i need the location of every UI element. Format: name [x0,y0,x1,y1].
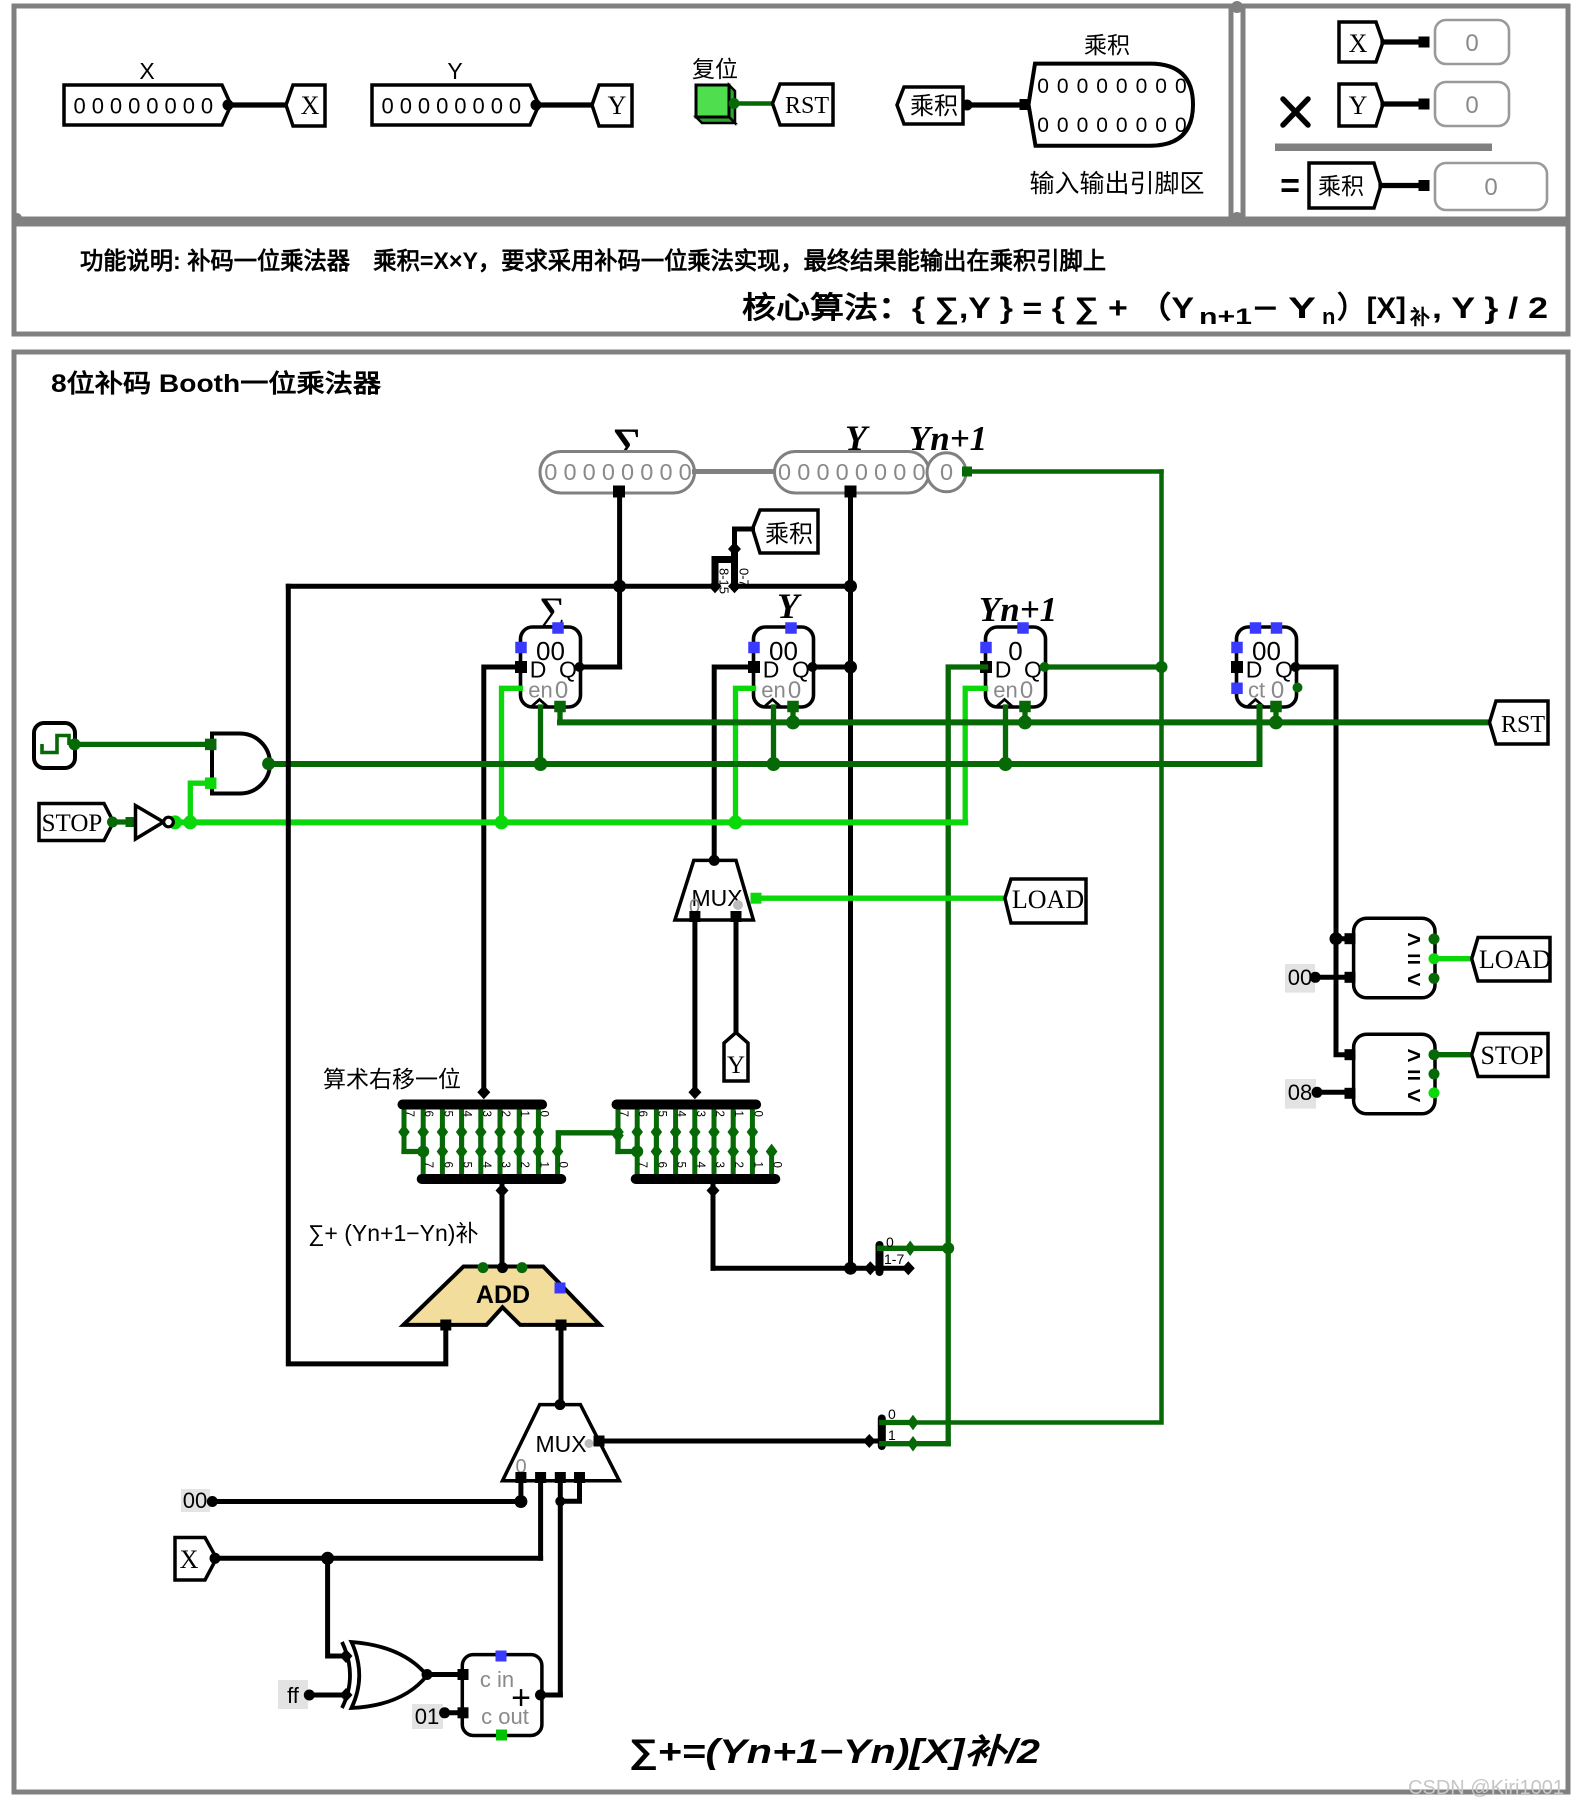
junction clock at Yn+1 register [999,757,1013,771]
wire Y bus to Yn splitter [713,1266,870,1271]
svg-text:0: 0 [797,459,810,485]
svg-text:1: 1 [888,1427,896,1443]
tunnel RST (top row) [773,84,834,125]
svg-text:∑+ (Yn+1−Yn)补: ∑+ (Yn+1−Yn)补 [308,1220,478,1246]
probe X value box [1435,20,1509,64]
svg-text:0: 0 [1037,75,1049,98]
svg-text:7: 7 [636,1162,648,1168]
wire tunnel 乘积 to probe [1381,183,1424,188]
svg-text:2: 2 [499,1111,511,1117]
svg-text:4: 4 [480,1162,492,1169]
wire button to tunnel RST [734,101,772,106]
wire 00 to MUX2 in0 [212,1499,521,1504]
wire Yn+1 en (light green) [965,688,985,822]
tunnel LOAD (right) [1472,938,1550,982]
wire constant 08 to comparator2 [1317,1090,1350,1095]
svg-text:0: 0 [888,1406,896,1422]
splitter SIGMA-shift bottom bar [422,1174,562,1184]
svg-text:5: 5 [655,1111,667,1117]
junction enable at AND branch [183,815,197,829]
Y-shift bit0 dangling arrow [766,1144,778,1160]
splitter product 16-bit (8-15 / 0-7) [728,542,741,556]
svg-text:n+1: n+1 [1199,304,1252,329]
svg-text:0: 0 [583,459,596,485]
panel handle dots [1231,1,1243,13]
node: probe ∑ stub [613,486,625,498]
node: ∑ register Q [575,662,585,672]
svg-text:5: 5 [441,1111,453,1117]
wire Y probe down (Y bus) [848,490,853,1269]
wire tunnel Y to probe [1383,101,1424,106]
wire MUX1 in0 down to Y shifter output [692,920,697,1092]
svg-text:0: 0 [1096,114,1108,137]
wire constant 00 to comparator1 [1315,975,1350,980]
panel border: description text frame [14,224,1568,334]
svg-text:0: 0 [473,94,485,119]
junction RST at counter [1269,715,1283,729]
tunnel 乘积 (circuit) [753,510,819,553]
svg-text:0: 0 [563,459,576,485]
svg-text:00: 00 [183,1488,207,1513]
svg-text:0: 0 [640,459,653,485]
wire ∑ en (light green) [502,688,521,822]
svg-text:0: 0 [1077,114,1089,137]
svg-text:0: 0 [1116,75,1128,98]
MUX2 select square [594,1436,605,1447]
svg-text:LOAD: LOAD [1479,945,1551,974]
svg-text:6: 6 [636,1111,648,1117]
wire STOP to inverter [113,819,137,824]
wire Yn+1 clock stub [1003,707,1008,764]
svg-text:0: 0 [201,94,213,119]
svg-text:RST: RST [785,93,829,119]
svg-text:0: 0 [1271,677,1284,704]
node: STOP pin [107,817,118,828]
wire ∑ probe down [617,490,622,668]
wire MUX2 in2 down to bottom adder output [558,1481,563,1695]
bottom adder (+, c in / c out) [462,1655,542,1736]
svg-text:0: 0 [893,459,906,485]
splitter MUX2-select (0 / 1) [863,1434,876,1448]
svg-text:MUX: MUX [535,1431,586,1457]
svg-text:STOP: STOP [1480,1041,1543,1070]
svg-text:核心算法：{ ∑,Y } = { ∑ + （Y: 核心算法：{ ∑,Y } = { ∑ + （Y [742,291,1194,325]
cross wire ∑ LSB to Y-shift bit7 [558,1133,618,1152]
push button 复位 [729,85,735,123]
svg-text:6: 6 [655,1162,667,1168]
svg-text:RST: RST [1501,712,1545,738]
clock input component [34,723,75,768]
input pin Y (8-bit, 00000000) [372,85,539,125]
junction 00-line at MUX2 in0 [514,1495,527,1508]
probe 乘积 value box [1435,163,1547,210]
node: AND output [262,757,275,770]
node: probe 乘积 input [1419,180,1430,191]
register Y [754,627,814,707]
svg-text:+: + [511,1679,531,1717]
svg-text:0: 0 [1155,75,1167,98]
svg-text:4: 4 [461,1111,473,1118]
svg-text:3: 3 [694,1111,706,1117]
wire MUX2 output up to ADD input B [559,1327,564,1405]
svg-text:0: 0 [557,1162,569,1168]
register SIGMA [521,627,581,707]
svg-text:0: 0 [400,94,412,119]
wire Y reset stub [790,707,795,722]
junction comparator upper input [1330,932,1343,945]
adder ADD (8-bit) [403,1267,599,1325]
wire tunnel X to probe [1383,39,1424,44]
svg-text:<: < [1407,966,1421,993]
svg-text:乘积: 乘积 [1084,32,1130,58]
wire ∑ reset stub [557,707,562,722]
wire MUX1 in1 down to Y pin [734,920,739,1035]
wire enable bus (light green, inverted STOP) [172,819,965,825]
svg-text:STOP: STOP [42,810,103,837]
splitter Y-shift endpoint arrows [612,1124,624,1140]
svg-text:0: 0 [778,459,791,485]
svg-text:0: 0 [1096,75,1108,98]
text 核心算法 formula line [742,291,1548,329]
tunnel STOP (right) [1472,1034,1548,1077]
constant 01 (adder input) [412,1704,443,1729]
junction enable at Y register [729,815,743,829]
output pin 乘积 (16-bit display) [1029,64,1194,146]
svg-text:0: 0 [886,1234,894,1250]
splitter SIGMA-shift fan wires [402,1105,407,1152]
svg-text:0: 0 [1057,75,1069,98]
svg-text:CSDN @Kiri1001: CSDN @Kiri1001 [1408,1777,1564,1799]
tunnel 乘积 (result panel) [1309,163,1381,208]
node: inverter output [168,815,182,829]
wire LOAD to MUX1 select [759,896,1005,901]
tunnel LOAD (at MUX1) [1005,879,1086,923]
wire 01 to adder [445,1710,463,1715]
wire X to MUX2 in1 [215,1556,541,1561]
ADD input squares [440,1320,451,1331]
tunnel Y (load value, pointing up) [724,1033,748,1082]
svg-text:输入输出引脚区: 输入输出引脚区 [1029,170,1204,198]
svg-text:, Y } / 2: , Y } / 2 [1432,292,1548,325]
junction enable at ∑ register [495,815,509,829]
svg-text:0: 0 [940,459,953,485]
node: clock output [69,738,81,750]
fraction bar [1275,144,1492,152]
svg-text:6: 6 [422,1111,434,1117]
svg-text:1: 1 [518,1111,530,1117]
svg-text:6: 6 [441,1162,453,1168]
tunnel Y (top row) [592,85,632,126]
tunnel X (top row) [286,85,325,126]
wire ∑ clock stub [538,707,543,764]
svg-text:2: 2 [518,1162,530,1168]
svg-text:2: 2 [732,1162,744,1168]
input pin X (8-bit, 00000000) [64,85,231,125]
node: probe Y stub [845,486,857,498]
junction RST at Y register [786,715,800,729]
splitter SIGMA-shift top bar [403,1100,543,1110]
svg-text:0: 0 [836,459,849,485]
svg-text:01: 01 [415,1704,439,1729]
junction RST at Yn+1 register [1018,715,1032,729]
wire MUX2 in1 down to X line [538,1481,543,1559]
wire comparator1 = to LOAD tunnel [1434,956,1472,961]
wire Y Q to Y bus [813,665,851,670]
svg-text:1: 1 [751,1162,763,1168]
svg-text:Y: Y [1349,91,1368,120]
wire counter Q down to comparators [1296,667,1351,1055]
svg-text:0: 0 [146,94,158,119]
svg-text:0: 0 [855,459,868,485]
node: MUX1 output [709,855,720,866]
MUX2 input stubs [515,1472,526,1483]
svg-text:0: 0 [1136,75,1148,98]
XOR gate [342,1642,350,1708]
svg-text:0: 0 [74,94,86,119]
probe Yn+1 (1-bit circle) [927,453,966,492]
MUX1 select square [751,893,762,904]
node comparator1 > output [1429,934,1440,945]
node: Y register Q [808,662,818,672]
splitter SIGMA-shift bit7 jog [404,1149,423,1154]
svg-text:0: 0 [537,1111,549,1117]
svg-text:0: 0 [509,94,521,119]
junction Yn+1 long vertical [1156,661,1168,673]
svg-text:X: X [1349,29,1368,58]
gray wire probe ∑ to probe Y [695,469,775,474]
svg-text:1: 1 [732,1111,744,1117]
svg-text:4: 4 [675,1111,687,1118]
svg-text:1: 1 [537,1162,549,1168]
svg-text:7: 7 [617,1111,629,1117]
wire Yn+1 reset stub [1022,707,1027,722]
svg-text:乘积: 乘积 [1318,173,1364,199]
node: counter carry out [1293,683,1303,693]
svg-text:0: 0 [92,94,104,119]
node: pin Y output [531,100,542,111]
svg-text:08: 08 [1288,1080,1312,1105]
svg-text:0: 0 [1465,30,1478,57]
wire counter reset stub [1273,707,1278,722]
wire: long Yn+1 vertical to lower bit splitter [913,472,1162,1423]
svg-text:0: 0 [1057,114,1069,137]
splitter SIGMA input stub [477,1085,490,1099]
wire MUX2 in0 stub [518,1481,523,1502]
wire MUX2 select to splitter [602,1439,869,1444]
wire Y bus horizontal (to 0-7) [735,584,851,589]
wire adder output to MUX2 in2 [541,1693,561,1698]
wire MUX2 in3 join in2 [560,1481,579,1502]
svg-text:7: 7 [403,1111,415,1117]
svg-text:Y: Y [608,91,627,120]
splitter Y-shift bottom bar [636,1174,776,1184]
wire Yn bit to Yn+1 register D [948,667,985,1444]
svg-text:3: 3 [499,1162,511,1168]
svg-text:0: 0 [1116,114,1128,137]
wire Yn+1 probe to long vertical [967,469,1162,474]
svg-text:乘积: 乘积 [910,93,958,120]
constant 00 (MUX2 in0) [181,1489,210,1512]
svg-text:3: 3 [480,1111,492,1117]
node: Yn+1 register Q [1040,662,1050,672]
wire junction to comparator1 input [1336,936,1350,941]
node comparator1 = output [1429,953,1440,964]
wire Yn+1 Q to long vertical [1045,664,1162,669]
svg-text:3: 3 [713,1162,725,1168]
svg-text:Y: Y [447,58,462,84]
wire ∑ bus horizontal (to 8-15) [288,584,715,589]
register Yn+1 [986,627,1046,707]
splitter Y-shift bit7 jog [618,1149,637,1154]
NOT gate (inverter) [136,806,164,840]
panel border: I/O pin area frame [14,6,1231,219]
svg-text:0: 0 [1465,92,1478,119]
svg-text:0: 0 [382,94,394,119]
node: probe Y input [1419,99,1430,110]
junction clock at Y register [767,757,781,771]
svg-text:0: 0 [659,459,672,485]
wire ff to XOR [309,1693,344,1698]
probe Y (8-bit) [775,452,930,494]
wire pin Y to tunnel Y [536,102,593,107]
svg-text:0: 0 [1020,677,1033,704]
svg-text:0: 0 [602,459,615,485]
svg-text:0: 0 [165,94,177,119]
wire Y en (light green) [736,688,754,822]
node comparator2 > output [1429,1049,1440,1060]
svg-text:0: 0 [912,459,925,485]
svg-text:0: 0 [1077,75,1089,98]
svg-text:0: 0 [1155,114,1167,137]
node: probe Yn+1 output [962,467,972,477]
svg-text:0: 0 [110,94,122,119]
probe ∑ (8-bit) [540,452,695,494]
junction X line to XOR branch [321,1552,334,1565]
svg-text:0: 0 [788,677,801,704]
svg-text:X: X [301,91,320,120]
node comparator1 < output [1429,973,1440,984]
svg-text:X: X [180,1545,199,1574]
wire RST bus (dark green) [560,719,1490,725]
probe Y value box [1435,82,1509,126]
svg-text:5: 5 [461,1162,473,1168]
wire tunnel to product pin [967,102,1024,107]
wire Y clock stub [771,707,776,764]
svg-text:0: 0 [679,459,692,485]
input pin X (circuit) [175,1538,217,1581]
multiply sign × [1283,99,1308,125]
node: ADD carry [517,1262,528,1273]
constant 00 (comparator1) [1285,964,1315,993]
tunnel Y (result panel) [1339,84,1383,126]
svg-text:<: < [1407,1082,1421,1109]
panel border: result display frame [1243,6,1568,219]
svg-text:0: 0 [555,677,568,704]
svg-text:00: 00 [1288,965,1312,990]
wire X branch down to XOR [328,1558,344,1656]
constant 08 (comparator2) [1285,1079,1316,1109]
wire comparator2 > to STOP tunnel [1434,1052,1472,1057]
tunnel 乘积 (feeds product pin) [897,87,963,124]
wire gated clock bus (dark green) [269,707,1260,764]
svg-text:0: 0 [874,459,887,485]
svg-text:0: 0 [436,94,448,119]
svg-text:− Y: − Y [1253,292,1316,325]
node: ADD input A [478,1262,489,1273]
svg-text:n: n [1322,304,1335,329]
svg-text:2: 2 [713,1111,725,1117]
wire MUX1 out up to Y register D [714,667,753,860]
node comparator2 < output [1429,1087,1440,1098]
svg-text:=: = [1280,167,1300,205]
svg-text:7: 7 [422,1162,434,1168]
splitter Yn (0 / 1-7) [864,1261,877,1275]
svg-text:乘积: 乘积 [765,521,813,548]
multiplexer MUX1 (Y load/shift) [675,860,754,920]
splitter Y-shift fan wires [616,1105,621,1152]
wire pin X to tunnel X [228,102,287,107]
svg-text:X: X [139,58,154,84]
splitter Y-shift input stub [688,1085,701,1099]
wire STOPbar up to AND input (light green) [190,783,209,822]
wire clock to AND gate [75,742,212,747]
node: ADD output (top) [497,1262,508,1273]
junction Y bus [844,580,857,593]
svg-text:Y: Y [777,586,802,626]
svg-text:0: 0 [816,459,829,485]
svg-text:LOAD: LOAD [1012,885,1084,914]
junction clock at ∑ register [534,757,548,771]
wire splitter-out up to ∑ register D [484,667,521,1092]
splitter Y-shift top bar [617,1100,757,1110]
svg-text:0: 0 [1136,114,1148,137]
register counter CT [1237,627,1297,707]
svg-text:0: 0 [128,94,140,119]
svg-text:ff: ff [287,1683,300,1708]
node: bottom adder output [535,1690,546,1701]
comparator U2 (count>8 -> STOP) [1354,1034,1435,1114]
svg-text:Y: Y [727,1052,745,1079]
junction Y bus at register Q [844,661,857,674]
svg-text:0: 0 [491,94,503,119]
constant ff (XOR input) [278,1680,308,1709]
node: MUX2 output [555,1399,566,1410]
wire ∑ feedback loop to ADD input A [288,586,446,1364]
node: pin X output [223,100,234,111]
svg-text:0: 0 [1175,75,1187,98]
tunnel X (result panel) [1339,22,1383,62]
svg-text:5: 5 [675,1162,687,1168]
svg-text:功能说明: 补码一位乘法器 乘积=X×Y，要求采用补码一位乘: 功能说明: 补码一位乘法器 乘积=X×Y，要求采用补码一位乘法实现，最终结果能输… [80,247,1106,275]
svg-text:0: 0 [454,94,466,119]
svg-text:0: 0 [1484,174,1497,201]
svg-text:0: 0 [751,1111,763,1117]
node: button output [729,98,740,109]
wire 乘积 tunnel to splitter [735,529,753,549]
splitter SIGMA output stub [500,1179,505,1268]
MUX1 input stubs [689,911,700,922]
node: X pin [210,1553,221,1564]
svg-text:0: 0 [418,94,430,119]
junction Y bus at splitter feed [844,1262,857,1275]
svg-text:4: 4 [694,1162,706,1169]
svg-text:0: 0 [1037,114,1049,137]
svg-text:）[X]: ）[X] [1337,291,1406,325]
AND gate [212,734,270,794]
svg-text:∑+=(Yn+1−Yn)[X]补/2: ∑+=(Yn+1−Yn)[X]补/2 [628,1733,1040,1771]
node: XOR output [422,1669,433,1680]
node: counter Q [1291,662,1301,672]
